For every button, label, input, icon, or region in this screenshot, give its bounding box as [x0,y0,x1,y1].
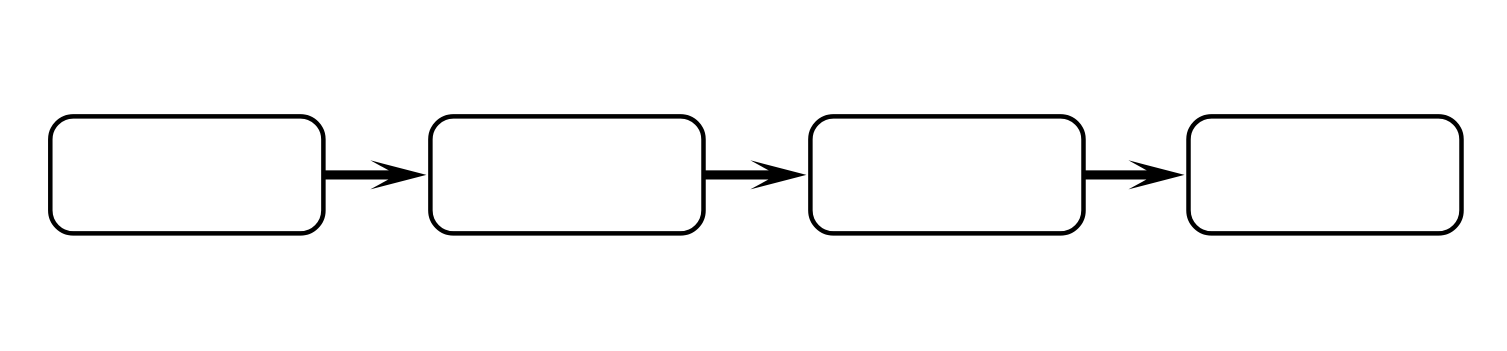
arrow 2 [704,160,807,189]
box 4 [1189,116,1462,233]
box 3 [810,116,1083,233]
box 1 [50,116,323,233]
box 2 [430,116,703,233]
arrow 1 [323,160,426,189]
arrow 3 [1084,160,1185,189]
